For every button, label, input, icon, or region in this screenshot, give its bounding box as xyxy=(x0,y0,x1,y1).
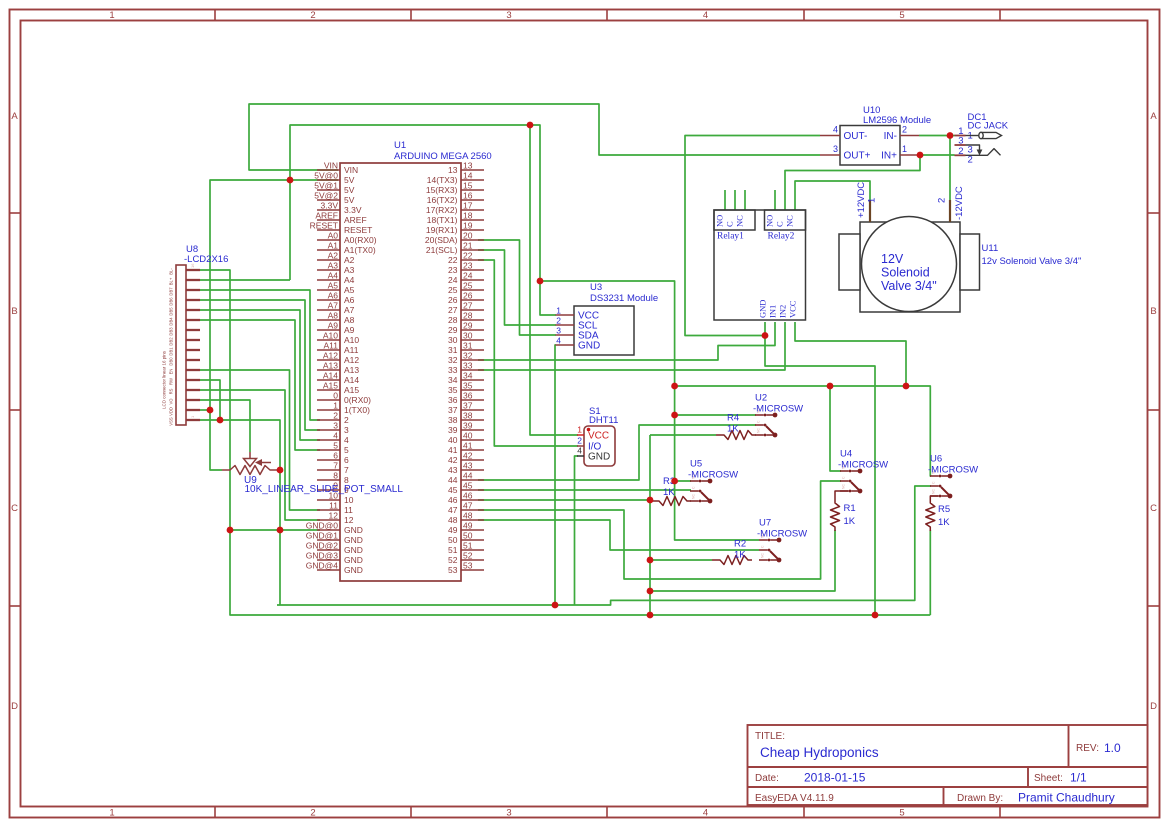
svg-text:3: 3 xyxy=(556,326,561,336)
svg-text:GND: GND xyxy=(344,545,363,555)
svg-text:A13: A13 xyxy=(323,361,338,371)
svg-text:1K: 1K xyxy=(844,516,856,527)
svg-text:GND: GND xyxy=(344,555,363,565)
svg-text:23: 23 xyxy=(463,261,473,271)
svg-text:C: C xyxy=(725,221,735,227)
svg-text:A3: A3 xyxy=(328,261,339,271)
svg-text:5V@1: 5V@1 xyxy=(314,181,338,191)
svg-text:OUT-: OUT- xyxy=(844,131,868,142)
svg-text:27: 27 xyxy=(448,305,458,315)
svg-text:2: 2 xyxy=(937,198,948,203)
svg-text:13: 13 xyxy=(463,161,473,171)
svg-text:1: 1 xyxy=(556,306,561,316)
svg-text:23: 23 xyxy=(448,265,458,275)
svg-text:R1: R1 xyxy=(844,503,856,514)
svg-text:A: A xyxy=(11,111,18,122)
svg-text:-MICROSW: -MICROSW xyxy=(753,404,803,415)
svg-text:A5: A5 xyxy=(344,285,355,295)
svg-text:2018-01-15: 2018-01-15 xyxy=(804,771,866,785)
svg-text:GND@0: GND@0 xyxy=(306,521,339,531)
svg-text:15(RX3): 15(RX3) xyxy=(426,185,458,195)
svg-text:A0(RX0): A0(RX0) xyxy=(344,235,377,245)
svg-text:+12VDC: +12VDC xyxy=(856,182,867,218)
svg-text:GND: GND xyxy=(578,341,600,352)
svg-text:U1: U1 xyxy=(394,140,406,151)
svg-text:33: 33 xyxy=(463,361,473,371)
svg-text:GND: GND xyxy=(588,452,610,463)
svg-text:5V: 5V xyxy=(344,175,355,185)
svg-text:1: 1 xyxy=(333,401,338,411)
svg-text:12: 12 xyxy=(344,515,354,525)
svg-text:AREF: AREF xyxy=(315,211,338,221)
svg-text:44: 44 xyxy=(463,471,473,481)
svg-text:A9: A9 xyxy=(328,321,339,331)
svg-text:REV:: REV: xyxy=(1076,743,1099,754)
svg-text:A1: A1 xyxy=(328,241,339,251)
svg-text:VCC: VCC xyxy=(788,300,798,318)
svg-text:DB3: DB3 xyxy=(169,327,174,336)
svg-text:4: 4 xyxy=(333,431,338,441)
svg-text:Solenoid: Solenoid xyxy=(881,266,930,280)
svg-text:VIN: VIN xyxy=(324,161,338,171)
svg-text:40: 40 xyxy=(448,435,458,445)
svg-text:GND: GND xyxy=(344,535,363,545)
svg-text:1: 1 xyxy=(109,10,114,21)
svg-text:C: C xyxy=(11,503,18,514)
svg-text:A12: A12 xyxy=(323,351,338,361)
svg-text:3: 3 xyxy=(833,144,838,154)
svg-text:-MICROSW: -MICROSW xyxy=(838,460,888,471)
svg-text:DHT11: DHT11 xyxy=(589,415,618,426)
svg-text:25: 25 xyxy=(448,285,458,295)
svg-text:NO: NO xyxy=(765,215,775,227)
svg-text:4: 4 xyxy=(703,808,708,819)
svg-text:A2: A2 xyxy=(344,255,355,265)
svg-text:OUT+: OUT+ xyxy=(844,151,871,162)
svg-text:D: D xyxy=(1150,701,1157,712)
svg-text:4: 4 xyxy=(703,10,708,21)
svg-text:44: 44 xyxy=(448,475,458,485)
svg-text:31: 31 xyxy=(463,341,473,351)
svg-text:A14: A14 xyxy=(323,371,338,381)
svg-text:A9: A9 xyxy=(344,325,355,335)
svg-text:46: 46 xyxy=(463,491,473,501)
svg-text:1: 1 xyxy=(902,144,907,154)
svg-text:5V: 5V xyxy=(344,185,355,195)
svg-text:12V: 12V xyxy=(881,252,904,266)
svg-text:45: 45 xyxy=(448,485,458,495)
svg-text:A3: A3 xyxy=(344,265,355,275)
svg-text:LM2596 Module: LM2596 Module xyxy=(863,115,931,126)
svg-text:2: 2 xyxy=(577,436,582,446)
svg-text:12v Solenoid Valve 3/4": 12v Solenoid Valve 3/4" xyxy=(982,256,1082,267)
svg-text:ARDUINO MEGA 2560: ARDUINO MEGA 2560 xyxy=(394,151,492,162)
svg-text:A4: A4 xyxy=(328,271,339,281)
svg-text:42: 42 xyxy=(448,455,458,465)
svg-text:4: 4 xyxy=(577,446,582,456)
svg-text:A4: A4 xyxy=(344,275,355,285)
svg-text:41: 41 xyxy=(463,441,473,451)
svg-text:37: 37 xyxy=(448,405,458,415)
svg-text:26: 26 xyxy=(448,295,458,305)
svg-text:6: 6 xyxy=(333,451,338,461)
svg-text:34: 34 xyxy=(448,375,458,385)
svg-text:5V@0: 5V@0 xyxy=(314,171,338,181)
svg-text:14: 14 xyxy=(463,171,473,181)
svg-text:2: 2 xyxy=(958,146,963,157)
svg-text:16: 16 xyxy=(463,191,473,201)
svg-text:1.0: 1.0 xyxy=(1104,741,1121,755)
svg-text:B: B xyxy=(1150,306,1156,317)
svg-text:VCC: VCC xyxy=(588,431,609,442)
svg-text:3: 3 xyxy=(344,425,349,435)
svg-text:45: 45 xyxy=(463,481,473,491)
svg-text:13: 13 xyxy=(448,165,458,175)
svg-text:VO: VO xyxy=(169,398,174,405)
svg-text:38: 38 xyxy=(448,415,458,425)
svg-text:Pramit Chaudhury: Pramit Chaudhury xyxy=(1018,791,1115,805)
svg-text:48: 48 xyxy=(448,515,458,525)
svg-text:3.3V: 3.3V xyxy=(321,201,339,211)
svg-text:TITLE:: TITLE: xyxy=(755,731,785,742)
svg-text:A5: A5 xyxy=(328,281,339,291)
svg-text:43: 43 xyxy=(463,461,473,471)
svg-text:35: 35 xyxy=(463,381,473,391)
svg-text:11: 11 xyxy=(329,501,338,511)
svg-text:17(RX2): 17(RX2) xyxy=(426,205,458,215)
svg-text:DB6: DB6 xyxy=(169,297,174,306)
svg-text:10K_LINEAR_SLIDE_POT_SMALL: 10K_LINEAR_SLIDE_POT_SMALL xyxy=(245,484,404,495)
svg-text:52: 52 xyxy=(448,555,458,565)
svg-text:2: 2 xyxy=(556,316,561,326)
svg-text:A8: A8 xyxy=(328,311,339,321)
svg-text:2: 2 xyxy=(902,125,907,135)
svg-text:A11: A11 xyxy=(324,341,339,351)
svg-text:49: 49 xyxy=(448,525,458,535)
svg-text:A15: A15 xyxy=(344,385,359,395)
svg-text:A0: A0 xyxy=(328,231,339,241)
svg-text:5: 5 xyxy=(333,441,338,451)
svg-text:R4: R4 xyxy=(727,413,739,424)
svg-text:-MICROSW: -MICROSW xyxy=(757,529,807,540)
svg-text:12: 12 xyxy=(329,511,339,521)
svg-text:28: 28 xyxy=(463,311,473,321)
svg-text:50: 50 xyxy=(448,535,458,545)
svg-text:DB7: DB7 xyxy=(169,287,174,296)
svg-text:2: 2 xyxy=(310,808,315,819)
svg-text:1: 1 xyxy=(867,198,878,203)
svg-text:RESET: RESET xyxy=(310,221,338,231)
svg-text:36: 36 xyxy=(463,391,473,401)
svg-text:40: 40 xyxy=(463,431,473,441)
svg-text:DC JACK: DC JACK xyxy=(968,121,1009,132)
svg-text:A13: A13 xyxy=(344,365,359,375)
svg-text:5V@2: 5V@2 xyxy=(314,191,338,201)
svg-text:NO: NO xyxy=(715,215,725,227)
svg-text:24: 24 xyxy=(448,275,458,285)
svg-text:2: 2 xyxy=(344,415,349,425)
svg-text:NC: NC xyxy=(932,489,936,494)
svg-text:IN+: IN+ xyxy=(881,151,897,162)
svg-text:IN2: IN2 xyxy=(778,305,788,318)
svg-text:22: 22 xyxy=(463,251,473,261)
svg-text:U4: U4 xyxy=(840,449,852,460)
svg-text:11: 11 xyxy=(344,505,353,515)
svg-text:33: 33 xyxy=(448,365,458,375)
svg-text:VDD: VDD xyxy=(169,407,174,416)
svg-text:GND: GND xyxy=(758,300,768,318)
svg-text:15: 15 xyxy=(463,181,473,191)
svg-text:28: 28 xyxy=(448,315,458,325)
svg-text:-MICROSW: -MICROSW xyxy=(928,465,978,476)
svg-text:20: 20 xyxy=(463,231,473,241)
svg-text:Relay1: Relay1 xyxy=(717,232,744,242)
svg-text:A8: A8 xyxy=(344,315,355,325)
svg-text:1K: 1K xyxy=(938,517,950,528)
svg-text:47: 47 xyxy=(448,505,458,515)
svg-text:U7: U7 xyxy=(759,518,771,529)
svg-text:A6: A6 xyxy=(344,295,355,305)
svg-text:BL+: BL+ xyxy=(169,277,174,285)
svg-text:NC: NC xyxy=(692,494,696,499)
svg-text:A6: A6 xyxy=(328,291,339,301)
svg-text:7: 7 xyxy=(344,465,349,475)
svg-text:16: 16 xyxy=(190,263,195,268)
svg-text:VSS: VSS xyxy=(169,417,174,426)
svg-text:3.3V: 3.3V xyxy=(344,205,362,215)
svg-text:5V: 5V xyxy=(344,195,355,205)
svg-text:DB1: DB1 xyxy=(169,347,174,356)
svg-text:C: C xyxy=(775,221,785,227)
svg-text:A15: A15 xyxy=(323,381,338,391)
svg-text:50: 50 xyxy=(463,531,473,541)
svg-text:Cheap Hydroponics: Cheap Hydroponics xyxy=(760,745,879,760)
svg-text:-12VDC: -12VDC xyxy=(954,186,965,220)
svg-text:A10: A10 xyxy=(344,335,359,345)
svg-text:47: 47 xyxy=(463,501,473,511)
svg-text:A10: A10 xyxy=(323,331,338,341)
svg-text:NC: NC xyxy=(757,428,761,433)
svg-text:U3: U3 xyxy=(590,282,602,293)
svg-text:49: 49 xyxy=(463,521,473,531)
svg-text:39: 39 xyxy=(448,425,458,435)
svg-text:5: 5 xyxy=(344,445,349,455)
svg-text:26: 26 xyxy=(463,291,473,301)
svg-text:27: 27 xyxy=(463,301,473,311)
svg-text:RESET: RESET xyxy=(344,225,372,235)
svg-text:21(SCL): 21(SCL) xyxy=(426,245,458,255)
svg-text:DB4: DB4 xyxy=(169,317,174,326)
svg-text:-MICROSW: -MICROSW xyxy=(688,470,738,481)
svg-text:43: 43 xyxy=(448,465,458,475)
svg-text:R5: R5 xyxy=(938,504,950,515)
svg-text:20(SDA): 20(SDA) xyxy=(425,235,458,245)
svg-text:37: 37 xyxy=(463,401,473,411)
svg-text:BL-: BL- xyxy=(169,268,174,275)
svg-text:AREF: AREF xyxy=(344,215,367,225)
svg-text:NC: NC xyxy=(842,484,846,489)
svg-text:32: 32 xyxy=(448,355,458,365)
svg-text:GND@1: GND@1 xyxy=(306,531,339,541)
svg-text:25: 25 xyxy=(463,281,473,291)
svg-text:A7: A7 xyxy=(328,301,339,311)
svg-text:Relay2: Relay2 xyxy=(768,232,795,242)
svg-text:GND@3: GND@3 xyxy=(306,551,339,561)
svg-text:18(TX1): 18(TX1) xyxy=(427,215,458,225)
svg-text:39: 39 xyxy=(463,421,473,431)
svg-text:A: A xyxy=(1150,111,1157,122)
svg-text:DB5: DB5 xyxy=(169,307,174,316)
svg-text:Valve 3/4": Valve 3/4" xyxy=(881,279,937,293)
svg-text:1: 1 xyxy=(109,808,114,819)
svg-text:VIN: VIN xyxy=(344,165,358,175)
svg-text:36: 36 xyxy=(448,395,458,405)
svg-text:3: 3 xyxy=(506,10,511,21)
svg-text:52: 52 xyxy=(463,551,473,561)
svg-text:10: 10 xyxy=(344,495,354,505)
svg-text:29: 29 xyxy=(448,325,458,335)
svg-text:53: 53 xyxy=(448,565,458,575)
svg-text:1(TX0): 1(TX0) xyxy=(344,405,370,415)
svg-text:U6: U6 xyxy=(930,454,942,465)
svg-text:0(RX0): 0(RX0) xyxy=(344,395,371,405)
svg-text:18: 18 xyxy=(463,211,473,221)
svg-text:Date:: Date: xyxy=(755,773,779,784)
svg-text:U5: U5 xyxy=(690,459,702,470)
svg-text:GND@2: GND@2 xyxy=(306,541,339,551)
svg-text:31: 31 xyxy=(448,345,458,355)
svg-text:17: 17 xyxy=(463,201,473,211)
svg-text:GND: GND xyxy=(344,525,363,535)
svg-text:NC: NC xyxy=(761,553,765,558)
svg-text:46: 46 xyxy=(448,495,458,505)
svg-text:30: 30 xyxy=(448,335,458,345)
svg-text:1K: 1K xyxy=(734,550,746,561)
svg-text:D: D xyxy=(11,701,18,712)
svg-text:DB2: DB2 xyxy=(169,337,174,346)
svg-text:2: 2 xyxy=(310,10,315,21)
svg-text:32: 32 xyxy=(463,351,473,361)
svg-text:U11: U11 xyxy=(982,243,999,254)
svg-text:6: 6 xyxy=(344,455,349,465)
svg-text:48: 48 xyxy=(463,511,473,521)
svg-text:7: 7 xyxy=(333,461,338,471)
svg-text:30: 30 xyxy=(463,331,473,341)
svg-text:4: 4 xyxy=(344,435,349,445)
svg-text:C: C xyxy=(1150,503,1157,514)
svg-text:34: 34 xyxy=(463,371,473,381)
svg-text:NC: NC xyxy=(735,215,745,227)
svg-text:2: 2 xyxy=(333,411,338,421)
svg-text:R2: R2 xyxy=(734,539,746,550)
svg-text:U2: U2 xyxy=(755,393,767,404)
svg-text:1K: 1K xyxy=(727,424,739,435)
svg-text:3: 3 xyxy=(506,808,511,819)
svg-text:DB0: DB0 xyxy=(169,357,174,366)
svg-text:22: 22 xyxy=(448,255,458,265)
svg-text:5: 5 xyxy=(899,10,904,21)
svg-text:A12: A12 xyxy=(344,355,359,365)
svg-text:EasyEDA V4.11.9: EasyEDA V4.11.9 xyxy=(755,793,834,804)
svg-text:5: 5 xyxy=(899,808,904,819)
svg-text:16(TX2): 16(TX2) xyxy=(427,195,458,205)
svg-text:19: 19 xyxy=(463,221,473,231)
svg-text:35: 35 xyxy=(448,385,458,395)
svg-text:53: 53 xyxy=(463,561,473,571)
svg-text:2: 2 xyxy=(968,155,973,166)
svg-text:1K: 1K xyxy=(663,487,675,498)
svg-text:EN: EN xyxy=(169,369,174,375)
svg-text:Drawn By:: Drawn By: xyxy=(957,793,1003,804)
svg-text:DS3231 Module: DS3231 Module xyxy=(590,293,658,304)
svg-text:19(RX1): 19(RX1) xyxy=(426,225,458,235)
svg-text:42: 42 xyxy=(463,451,473,461)
svg-text:A2: A2 xyxy=(328,251,339,261)
svg-text:-LCD2X16: -LCD2X16 xyxy=(184,254,228,265)
svg-text:3: 3 xyxy=(333,421,338,431)
svg-text:A11: A11 xyxy=(344,345,359,355)
svg-text:Sheet:: Sheet: xyxy=(1034,773,1063,784)
svg-text:GND: GND xyxy=(344,565,363,575)
svg-text:29: 29 xyxy=(463,321,473,331)
svg-text:21: 21 xyxy=(463,241,473,251)
svg-text:1/1: 1/1 xyxy=(1070,771,1087,785)
svg-text:IN-: IN- xyxy=(884,131,897,142)
svg-text:0: 0 xyxy=(333,391,338,401)
svg-text:IN1: IN1 xyxy=(768,305,778,318)
svg-text:RW: RW xyxy=(169,378,174,385)
svg-text:GND@4: GND@4 xyxy=(306,561,339,571)
svg-text:4: 4 xyxy=(833,125,838,135)
svg-text:38: 38 xyxy=(463,411,473,421)
svg-text:A1(TX0): A1(TX0) xyxy=(344,245,376,255)
svg-text:A14: A14 xyxy=(344,375,359,385)
svg-text:LCD connector linear 16 pins: LCD connector linear 16 pins xyxy=(162,350,167,409)
svg-text:RS: RS xyxy=(169,388,174,394)
svg-text:51: 51 xyxy=(448,545,458,555)
svg-text:51: 51 xyxy=(463,541,473,551)
svg-text:14(TX3): 14(TX3) xyxy=(427,175,458,185)
svg-text:A7: A7 xyxy=(344,305,355,315)
svg-text:NC: NC xyxy=(785,215,795,227)
svg-text:1: 1 xyxy=(577,425,582,435)
svg-text:B: B xyxy=(11,306,17,317)
svg-text:41: 41 xyxy=(448,445,458,455)
svg-text:8: 8 xyxy=(333,471,338,481)
svg-text:4: 4 xyxy=(556,336,561,346)
svg-text:24: 24 xyxy=(463,271,473,281)
